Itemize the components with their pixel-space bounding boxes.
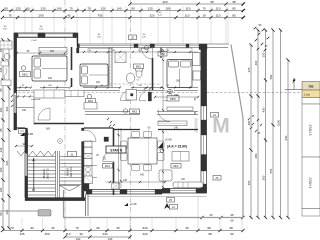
svg-text:290: 290 xyxy=(48,77,53,80)
corridor closets xyxy=(34,90,84,98)
svg-text:160: 160 xyxy=(22,109,27,112)
svg-text:70: 70 xyxy=(202,6,206,10)
dimension chain top row 1 xyxy=(128,0,244,5)
svg-text:240: 240 xyxy=(123,179,128,182)
top chain end ticks xyxy=(242,2,245,19)
svg-text:85: 85 xyxy=(232,6,236,10)
armchair xyxy=(159,170,172,181)
hall closet 2 xyxy=(84,103,97,110)
bottom wall stair block xyxy=(25,194,88,216)
svg-text:140: 140 xyxy=(56,6,61,10)
label 25 top xyxy=(129,35,137,40)
svg-text:MK1: MK1 xyxy=(136,65,142,68)
extension lines top xyxy=(14,6,228,44)
dimension chain top row 2 xyxy=(1,6,245,12)
beam line dashed 2 xyxy=(84,83,161,85)
svg-text:98: 98 xyxy=(210,0,214,4)
level mark +2.86 stairs xyxy=(20,132,33,136)
step wall xyxy=(77,33,79,45)
svg-text:555: 555 xyxy=(269,168,273,173)
svg-text:130: 130 xyxy=(100,6,105,10)
hall-corridor door xyxy=(38,108,50,120)
svg-text:90: 90 xyxy=(0,212,3,216)
svg-text:STAN 3: STAN 3 xyxy=(308,125,312,136)
interior dim bedroom3 xyxy=(154,94,199,98)
top-left exterior wall with windows xyxy=(14,33,78,42)
label MK2 hall xyxy=(86,94,96,103)
kitchen counter units xyxy=(84,141,107,191)
staircase xyxy=(17,151,81,198)
svg-text:98: 98 xyxy=(232,0,236,4)
interior dim bedroom1 xyxy=(16,50,66,54)
hall closet walls xyxy=(16,98,34,125)
svg-text:9x17.72: 9x17.72 xyxy=(69,167,73,177)
svg-text:90: 90 xyxy=(131,6,135,10)
svg-text:21: 21 xyxy=(70,153,74,157)
svg-text:360: 360 xyxy=(247,180,251,185)
floor box X xyxy=(112,183,120,189)
kitchen top wall xyxy=(84,127,113,129)
label MP2 xyxy=(167,96,179,102)
svg-text:940: 940 xyxy=(284,135,288,140)
svg-text:30: 30 xyxy=(79,232,83,236)
left exterior wall xyxy=(14,33,17,130)
label box 2.1 upper-left xyxy=(19,129,26,134)
svg-text:M: M xyxy=(212,115,230,138)
label 12 bottom xyxy=(170,205,178,210)
svg-text:150: 150 xyxy=(44,232,49,236)
bottom wall kitchen terrace xyxy=(86,190,162,195)
label 25 bottom xyxy=(167,198,175,203)
dimension chain bottom 2 xyxy=(63,235,131,240)
lounger on terrace xyxy=(173,182,203,188)
kitchen bar counter xyxy=(158,121,187,126)
svg-text:75: 75 xyxy=(8,13,12,17)
svg-text:420: 420 xyxy=(5,106,9,111)
svg-text:280: 280 xyxy=(176,80,181,83)
label MK2 living xyxy=(171,164,181,169)
label MK3 hall xyxy=(123,109,139,114)
svg-text:320: 320 xyxy=(149,13,154,17)
right exterior wall xyxy=(201,47,207,193)
svg-text:mb: mb xyxy=(309,85,314,89)
svg-text:320: 320 xyxy=(5,209,9,214)
wall kitchen|living xyxy=(113,128,115,195)
bottom wall living room xyxy=(162,189,207,194)
svg-text:95: 95 xyxy=(0,128,3,132)
dimension chain bottom right short xyxy=(200,213,244,223)
svg-text:25: 25 xyxy=(116,226,120,230)
svg-text:1.kat: 1.kat xyxy=(304,93,311,97)
corridor cabinet xyxy=(126,90,137,101)
svg-text:310: 310 xyxy=(0,147,3,152)
interior dim living xyxy=(117,128,122,188)
level mark +2.36 terrace xyxy=(124,202,137,206)
svg-text:90: 90 xyxy=(30,226,34,230)
wardrobe bedroom1 xyxy=(39,48,67,55)
svg-text:290: 290 xyxy=(38,13,43,17)
wall bedroom2|bath (hatched) xyxy=(109,47,112,87)
svg-text:70: 70 xyxy=(87,6,91,10)
svg-text:98: 98 xyxy=(207,226,211,230)
terrace edge line xyxy=(88,196,207,198)
svg-text:330: 330 xyxy=(0,67,3,72)
svg-text:98: 98 xyxy=(208,232,212,236)
north arrow xyxy=(164,203,170,209)
label MK2 bedroom1 xyxy=(20,72,31,77)
bed 3 (right bedroom) xyxy=(167,60,192,88)
stair dim xyxy=(33,158,35,190)
svg-text:+2.86: +2.86 xyxy=(26,132,34,136)
svg-text:19: 19 xyxy=(202,13,206,17)
svg-text:MK2: MK2 xyxy=(22,72,28,76)
svg-text:110: 110 xyxy=(216,6,221,10)
living room top wall xyxy=(113,129,198,131)
svg-text:+2.90: +2.90 xyxy=(164,138,172,142)
svg-text:+2.36: +2.36 xyxy=(129,202,137,206)
door bedroom1 xyxy=(31,91,40,100)
svg-text:P=46: P=46 xyxy=(31,40,37,42)
symbol circle bedroom1 xyxy=(21,66,25,70)
dimension chains right xyxy=(247,28,290,219)
svg-text:B/B: B/B xyxy=(46,128,50,131)
svg-text:70: 70 xyxy=(10,226,14,230)
door bedroom2 xyxy=(121,91,131,101)
door apartment entry xyxy=(85,130,109,142)
svg-text:45: 45 xyxy=(67,13,71,17)
svg-text:540: 540 xyxy=(140,174,145,177)
svg-text:26: 26 xyxy=(209,213,213,217)
interior dim stair hall xyxy=(15,143,33,147)
corridor top wall xyxy=(16,87,198,91)
stair block left wall xyxy=(14,128,28,198)
svg-text:98: 98 xyxy=(230,213,234,217)
svg-text:MK1: MK1 xyxy=(105,165,111,168)
svg-text:60: 60 xyxy=(26,6,30,10)
svg-text:120: 120 xyxy=(0,187,3,192)
label MK1 bath xyxy=(134,64,144,69)
stair hall top wall xyxy=(34,123,84,125)
svg-text:150: 150 xyxy=(262,52,266,57)
door bedroom3 xyxy=(164,91,174,101)
svg-text:110: 110 xyxy=(186,6,191,10)
bed 2 (middle-left bedroom) xyxy=(80,64,108,86)
dim rot wall right xyxy=(194,97,197,114)
left edge balcony xyxy=(0,41,13,107)
svg-text:110: 110 xyxy=(216,13,221,17)
svg-text:85: 85 xyxy=(232,13,236,17)
svg-text:660: 660 xyxy=(5,160,9,165)
dining table with chairs xyxy=(121,127,179,177)
axis line A xyxy=(64,0,66,230)
svg-text:25: 25 xyxy=(51,226,55,230)
level line dashed right xyxy=(207,92,302,94)
svg-text:360: 360 xyxy=(262,175,266,180)
right chain mid cluster xyxy=(248,116,262,135)
extension lines bottom xyxy=(22,196,242,229)
svg-text:140: 140 xyxy=(116,6,121,10)
corridor dim marks xyxy=(16,85,191,98)
dimension chain bottom 1 xyxy=(1,226,245,236)
gray planter xyxy=(38,210,51,217)
top-right exterior wall with windows xyxy=(77,44,229,50)
shelf xyxy=(167,107,193,111)
extension line living xyxy=(147,129,149,188)
interior dim below top wall xyxy=(80,50,198,53)
stair label box xyxy=(68,152,77,157)
door bath2 xyxy=(103,151,114,162)
svg-text:680: 680 xyxy=(254,153,258,158)
svg-text:160: 160 xyxy=(50,50,55,53)
svg-text:STAN 4: STAN 4 xyxy=(308,178,312,189)
svg-text:MK2: MK2 xyxy=(173,165,179,168)
svg-text:MK3: MK3 xyxy=(132,110,138,113)
door bath1 xyxy=(142,48,153,59)
stair right wall xyxy=(82,128,85,198)
svg-text:320: 320 xyxy=(162,0,167,4)
svg-text:66: 66 xyxy=(230,219,234,223)
svg-text:98: 98 xyxy=(229,226,233,230)
svg-text:430: 430 xyxy=(262,107,266,112)
dimension chain top row 3 xyxy=(1,13,245,19)
svg-text:795: 795 xyxy=(97,13,102,17)
right chain top labels xyxy=(254,24,270,51)
dimension chain left 2 xyxy=(5,38,10,229)
closet bedroom3 xyxy=(193,53,201,81)
svg-text:200: 200 xyxy=(96,81,101,84)
label 25 terrace xyxy=(213,176,221,181)
table pointer dimension xyxy=(285,78,302,90)
svg-text:198: 198 xyxy=(174,94,179,97)
gray terrace line left xyxy=(0,210,38,212)
bed 1 (left bedroom) xyxy=(32,56,67,81)
corridor door xyxy=(139,87,151,101)
svg-text:70: 70 xyxy=(75,226,79,230)
label MK3 bedroom3 xyxy=(158,52,167,57)
svg-text:130: 130 xyxy=(40,6,45,10)
svg-text:110: 110 xyxy=(185,13,190,17)
corridor bottom wall xyxy=(85,111,198,115)
svg-text:590: 590 xyxy=(269,74,273,79)
svg-text:66: 66 xyxy=(230,232,234,236)
beam line dashed xyxy=(14,91,198,93)
wall bath|bedroom3 xyxy=(153,48,162,91)
svg-text:1060: 1060 xyxy=(277,119,281,126)
svg-text:90: 90 xyxy=(4,6,8,10)
interior dim living2 xyxy=(105,179,166,183)
dimension chain left 1 xyxy=(0,38,5,229)
level mark hall xyxy=(158,138,172,153)
bathroom1 fixtures xyxy=(115,46,149,84)
svg-text:370: 370 xyxy=(247,67,251,72)
window spec labels xyxy=(3,12,162,38)
window sills xyxy=(88,48,192,53)
svg-text:90: 90 xyxy=(96,226,100,230)
svg-text:230: 230 xyxy=(102,232,107,236)
living corner dim ticks xyxy=(107,118,115,127)
svg-text:9x30.0: 9x30.0 xyxy=(66,167,70,176)
svg-text:(A.K.= 23.60): (A.K.= 23.60) xyxy=(167,145,187,149)
svg-text:MP2: MP2 xyxy=(170,97,176,101)
stair landing V xyxy=(60,186,80,191)
label MK1 living xyxy=(103,164,113,169)
svg-text:16x17.72: 16x17.72 xyxy=(46,168,50,180)
axis line B xyxy=(130,0,132,240)
bath2 walls xyxy=(84,166,97,178)
svg-text:25: 25 xyxy=(185,226,189,230)
door corridor-living xyxy=(158,110,170,122)
interior dim vertical x163 xyxy=(162,49,164,188)
svg-text:I: I xyxy=(193,115,199,138)
svg-text:70: 70 xyxy=(69,6,73,10)
label 21 right xyxy=(211,113,219,118)
svg-text:640: 640 xyxy=(142,226,147,230)
svg-text:280: 280 xyxy=(247,120,251,125)
svg-text:400: 400 xyxy=(254,60,258,65)
svg-text:160: 160 xyxy=(0,167,3,172)
wall bedroom1|bedroom2 xyxy=(72,47,80,87)
svg-text:16x30.0: 16x30.0 xyxy=(42,169,46,179)
svg-text:220: 220 xyxy=(142,232,147,236)
symbol circle MP2 xyxy=(168,89,173,94)
svg-text:240: 240 xyxy=(174,127,179,130)
label STAN 3 xyxy=(106,146,126,153)
svg-text:95: 95 xyxy=(0,88,3,92)
legend table right xyxy=(302,82,320,217)
sideboard xyxy=(172,152,189,162)
svg-text:160: 160 xyxy=(0,107,3,112)
svg-text:135: 135 xyxy=(15,6,20,10)
terrace boundary (gray) xyxy=(64,45,244,218)
svg-text:130: 130 xyxy=(147,6,152,10)
svg-text:145: 145 xyxy=(19,232,24,236)
circled number 1 xyxy=(58,139,63,144)
